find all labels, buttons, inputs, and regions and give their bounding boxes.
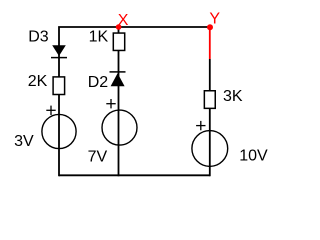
svg-text:7V: 7V: [88, 149, 108, 166]
svg-text:Y: Y: [209, 11, 220, 28]
svg-text:D2: D2: [88, 74, 109, 91]
resistor 2K: [53, 77, 65, 95]
voltage source V3 10V: [192, 131, 228, 167]
node X dot: [116, 24, 122, 30]
svg-text:3K: 3K: [223, 88, 243, 105]
voltage source V2 7V: [102, 110, 137, 145]
diode D2: [110, 72, 126, 86]
svg-text:X: X: [118, 12, 129, 29]
plus sign 10V: [196, 121, 205, 130]
voltage source V1 3V: [42, 114, 76, 148]
wire left branch vertical + top wire: [59, 27, 210, 176]
resistor 1K: [113, 33, 124, 50]
wire red probe segment below node Y: [209, 27, 211, 60]
wire middle branch vertical: [118, 27, 120, 176]
node Y dot: [207, 24, 213, 30]
svg-text:10V: 10V: [239, 147, 268, 164]
svg-text:1K: 1K: [89, 28, 109, 45]
diode D3: [51, 45, 67, 57]
svg-text:2K: 2K: [28, 73, 48, 90]
resistor 3K: [204, 91, 215, 109]
plus sign 7V: [106, 99, 115, 108]
plus sign 3V: [46, 106, 55, 115]
svg-text:D3: D3: [28, 28, 49, 45]
wire right branch vertical: [209, 59, 211, 176]
svg-text:3V: 3V: [14, 133, 34, 150]
wire bottom: [59, 174, 210, 176]
